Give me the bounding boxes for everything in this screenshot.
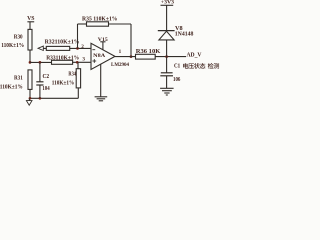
wire node A to C2 [39, 62, 41, 81]
wire output to C1 [166, 57, 168, 73]
svg-text:R32110K±1%: R32110K±1% [45, 38, 80, 45]
svg-text:R30: R30 [14, 34, 23, 40]
wire R31 to ground rail [29, 89, 31, 98]
minus sign pin 2 [92, 49, 95, 51]
wire VS to R30 [29, 22, 31, 30]
plus sign pin 3 [92, 60, 96, 62]
svg-text:110K±1%: 110K±1% [0, 84, 23, 90]
resistor R36 [136, 54, 156, 59]
wire C2 to ground rail [39, 85, 41, 98]
earth ground C1 [160, 87, 174, 89]
capacitor C1 [161, 72, 173, 74]
resistor R31 [28, 70, 32, 90]
svg-text:R34: R34 [68, 72, 76, 78]
earth ground op-amp [95, 96, 108, 98]
svg-text:1N4148: 1N4148 [175, 32, 194, 38]
svg-text:106: 106 [173, 77, 180, 83]
wire V15 to op-amp [102, 42, 104, 50]
resistor R35 [87, 22, 109, 26]
junction feedback node [76, 47, 79, 50]
op-amp N8A LM2904 [91, 43, 115, 69]
svg-text:C2: C2 [43, 74, 50, 80]
resistor R33 [52, 60, 73, 64]
wire feedback up [77, 24, 79, 48]
wire R36 to AD_V [155, 56, 186, 58]
wire R34 to ground rail [77, 88, 79, 98]
svg-text:1: 1 [119, 49, 122, 55]
wire to R35 [78, 23, 87, 25]
svg-text:VS: VS [27, 16, 34, 22]
svg-text:R36 10K: R36 10K [136, 48, 161, 55]
svg-text:104: 104 [42, 86, 49, 92]
svg-text:R33110K±1%: R33110K±1% [46, 54, 79, 61]
junction C2 ground [39, 97, 42, 100]
junction node A [29, 61, 32, 64]
wire junction to R34 [77, 62, 79, 68]
capacitor C2 [36, 81, 43, 83]
wire R33 to op-amp pin 3 [73, 61, 91, 63]
annotation 电压状态检测 [183, 63, 188, 69]
svg-text:R31: R31 [14, 76, 23, 82]
svg-text:110K±1%: 110K±1% [52, 80, 75, 86]
wire R30 to node A [29, 50, 31, 62]
junction R31 ground [29, 97, 32, 100]
resistor R34 [76, 69, 80, 88]
wire node A to R33 [30, 61, 52, 63]
wire C1 to ground [166, 76, 168, 89]
junction output feedback [130, 55, 133, 58]
wire diode to output [166, 40, 168, 57]
svg-text:N8A: N8A [93, 53, 105, 59]
resistor R30 [28, 29, 32, 50]
wire +3V3 to diode [166, 5, 168, 30]
resistor R32 [46, 46, 69, 50]
junction C2 top [39, 61, 42, 64]
svg-text:110K±1%: 110K±1% [1, 43, 24, 49]
junction diode C1 [165, 55, 168, 58]
svg-text:LM2904: LM2904 [111, 62, 129, 68]
svg-text:2: 2 [81, 44, 84, 50]
svg-text:3: 3 [82, 56, 85, 62]
diode V8 1N4148 [158, 30, 175, 32]
svg-text:AD_V: AD_V [187, 53, 203, 59]
wire op-amp V- down [100, 64, 102, 97]
junction R34 top [76, 61, 79, 64]
ground rail wire [30, 97, 78, 99]
wire op-amp output [115, 56, 136, 58]
port arrow to R32 [38, 46, 43, 50]
svg-text:R35 110K±1%: R35 110K±1% [82, 15, 118, 22]
wire R35 to output node [109, 23, 132, 25]
wire R32 to op-amp pin 2 [70, 47, 91, 49]
svg-text:+3V3: +3V3 [161, 0, 174, 6]
svg-text:C1: C1 [174, 64, 180, 70]
ground symbol [28, 98, 30, 100]
